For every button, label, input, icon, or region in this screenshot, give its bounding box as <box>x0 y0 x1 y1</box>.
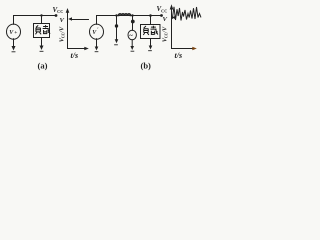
svg-text:V: V <box>163 16 168 23</box>
svg-text:(a): (a) <box>38 60 48 70</box>
svg-text:t/s: t/s <box>175 51 183 60</box>
svg-text:~: ~ <box>129 32 133 39</box>
svg-text:V: V <box>60 17 65 24</box>
svg-text:+: + <box>14 30 17 36</box>
svg-text:t/s: t/s <box>71 51 79 60</box>
svg-text:(b): (b) <box>141 60 152 70</box>
